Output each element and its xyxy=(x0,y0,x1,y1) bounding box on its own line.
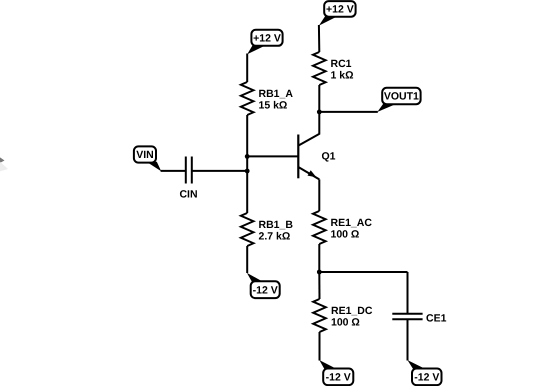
power flag -12 V (RB1_B rail) xyxy=(247,273,280,298)
svg-text:RB1_B: RB1_B xyxy=(259,219,294,231)
svg-text:RE1_DC: RE1_DC xyxy=(331,305,373,317)
wire RB1_A to RB1_B (bias node) xyxy=(246,115,248,213)
wire RB1_B to -12V rail xyxy=(246,246,248,273)
svg-text:1 kΩ: 1 kΩ xyxy=(331,70,354,82)
power flag +12 V (RC1 rail) xyxy=(319,1,356,26)
svg-text:CIN: CIN xyxy=(179,189,197,201)
wire +12V rail to RB1_A xyxy=(246,54,248,83)
capacitor CIN xyxy=(179,157,197,201)
svg-text:-12 V: -12 V xyxy=(326,372,351,384)
svg-text:+12 V: +12 V xyxy=(326,4,354,16)
svg-text:+12 V: +12 V xyxy=(253,33,281,45)
node: input coupling junction xyxy=(245,169,250,174)
wire RE1_DC to -12V rail xyxy=(319,332,321,361)
wire CIN to bias node xyxy=(192,170,247,172)
svg-text:-12 V: -12 V xyxy=(253,284,278,296)
svg-text:RC1: RC1 xyxy=(331,58,352,70)
wire emitter to RE1_AC xyxy=(318,179,320,211)
resistor RE1_DC 100 ohm xyxy=(313,299,373,332)
wire left edge artifact xyxy=(0,156,5,164)
wire collector node to VOUT1 xyxy=(319,111,378,113)
output flag VOUT1 xyxy=(377,88,420,112)
power flag -12 V (CE1 rail) xyxy=(408,360,442,385)
wire RE1_AC to emitter junction xyxy=(318,244,320,272)
transistor Q1 (NPN) xyxy=(298,134,335,180)
resistor RE1_AC 100 ohm xyxy=(313,211,372,244)
svg-text:CE1: CE1 xyxy=(426,313,447,325)
wire +12V rail to RC1 xyxy=(318,25,320,52)
wire CE1 bottom lead to -12V rail xyxy=(407,319,409,360)
power flag -12 V (RE1_DC rail) xyxy=(319,360,353,385)
input flag VIN xyxy=(134,146,161,171)
wire VIN to CIN xyxy=(161,170,186,172)
wire emitter junction to RE1_DC xyxy=(318,272,320,299)
node: collector output junction xyxy=(317,110,322,115)
wire CE1 top lead xyxy=(407,272,409,314)
resistor RC1 1 k xyxy=(313,52,354,85)
node: base bias junction xyxy=(245,154,250,159)
node: emitter junction xyxy=(317,270,322,275)
svg-text:RE1_AC: RE1_AC xyxy=(331,217,373,229)
svg-text:15 kΩ: 15 kΩ xyxy=(259,100,288,112)
svg-text:2.7 kΩ: 2.7 kΩ xyxy=(259,231,291,243)
resistor RB1_A 15 k xyxy=(241,82,293,115)
svg-text:VIN: VIN xyxy=(136,149,154,161)
resistor RB1_B 2.7 k xyxy=(241,213,293,246)
power flag +12 V (RB1_A rail) xyxy=(247,30,282,55)
svg-text:Q1: Q1 xyxy=(322,151,336,163)
svg-text:RB1_A: RB1_A xyxy=(259,88,294,100)
svg-text:100 Ω: 100 Ω xyxy=(331,317,360,329)
svg-text:-12 V: -12 V xyxy=(414,372,439,384)
capacitor CE1 xyxy=(392,313,446,325)
svg-text:VOUT1: VOUT1 xyxy=(384,91,419,103)
wire base xyxy=(247,155,298,157)
wire RC1 to collector xyxy=(318,85,320,135)
svg-text:100 Ω: 100 Ω xyxy=(331,229,360,241)
wire emitter junction to CE1 xyxy=(319,271,407,273)
